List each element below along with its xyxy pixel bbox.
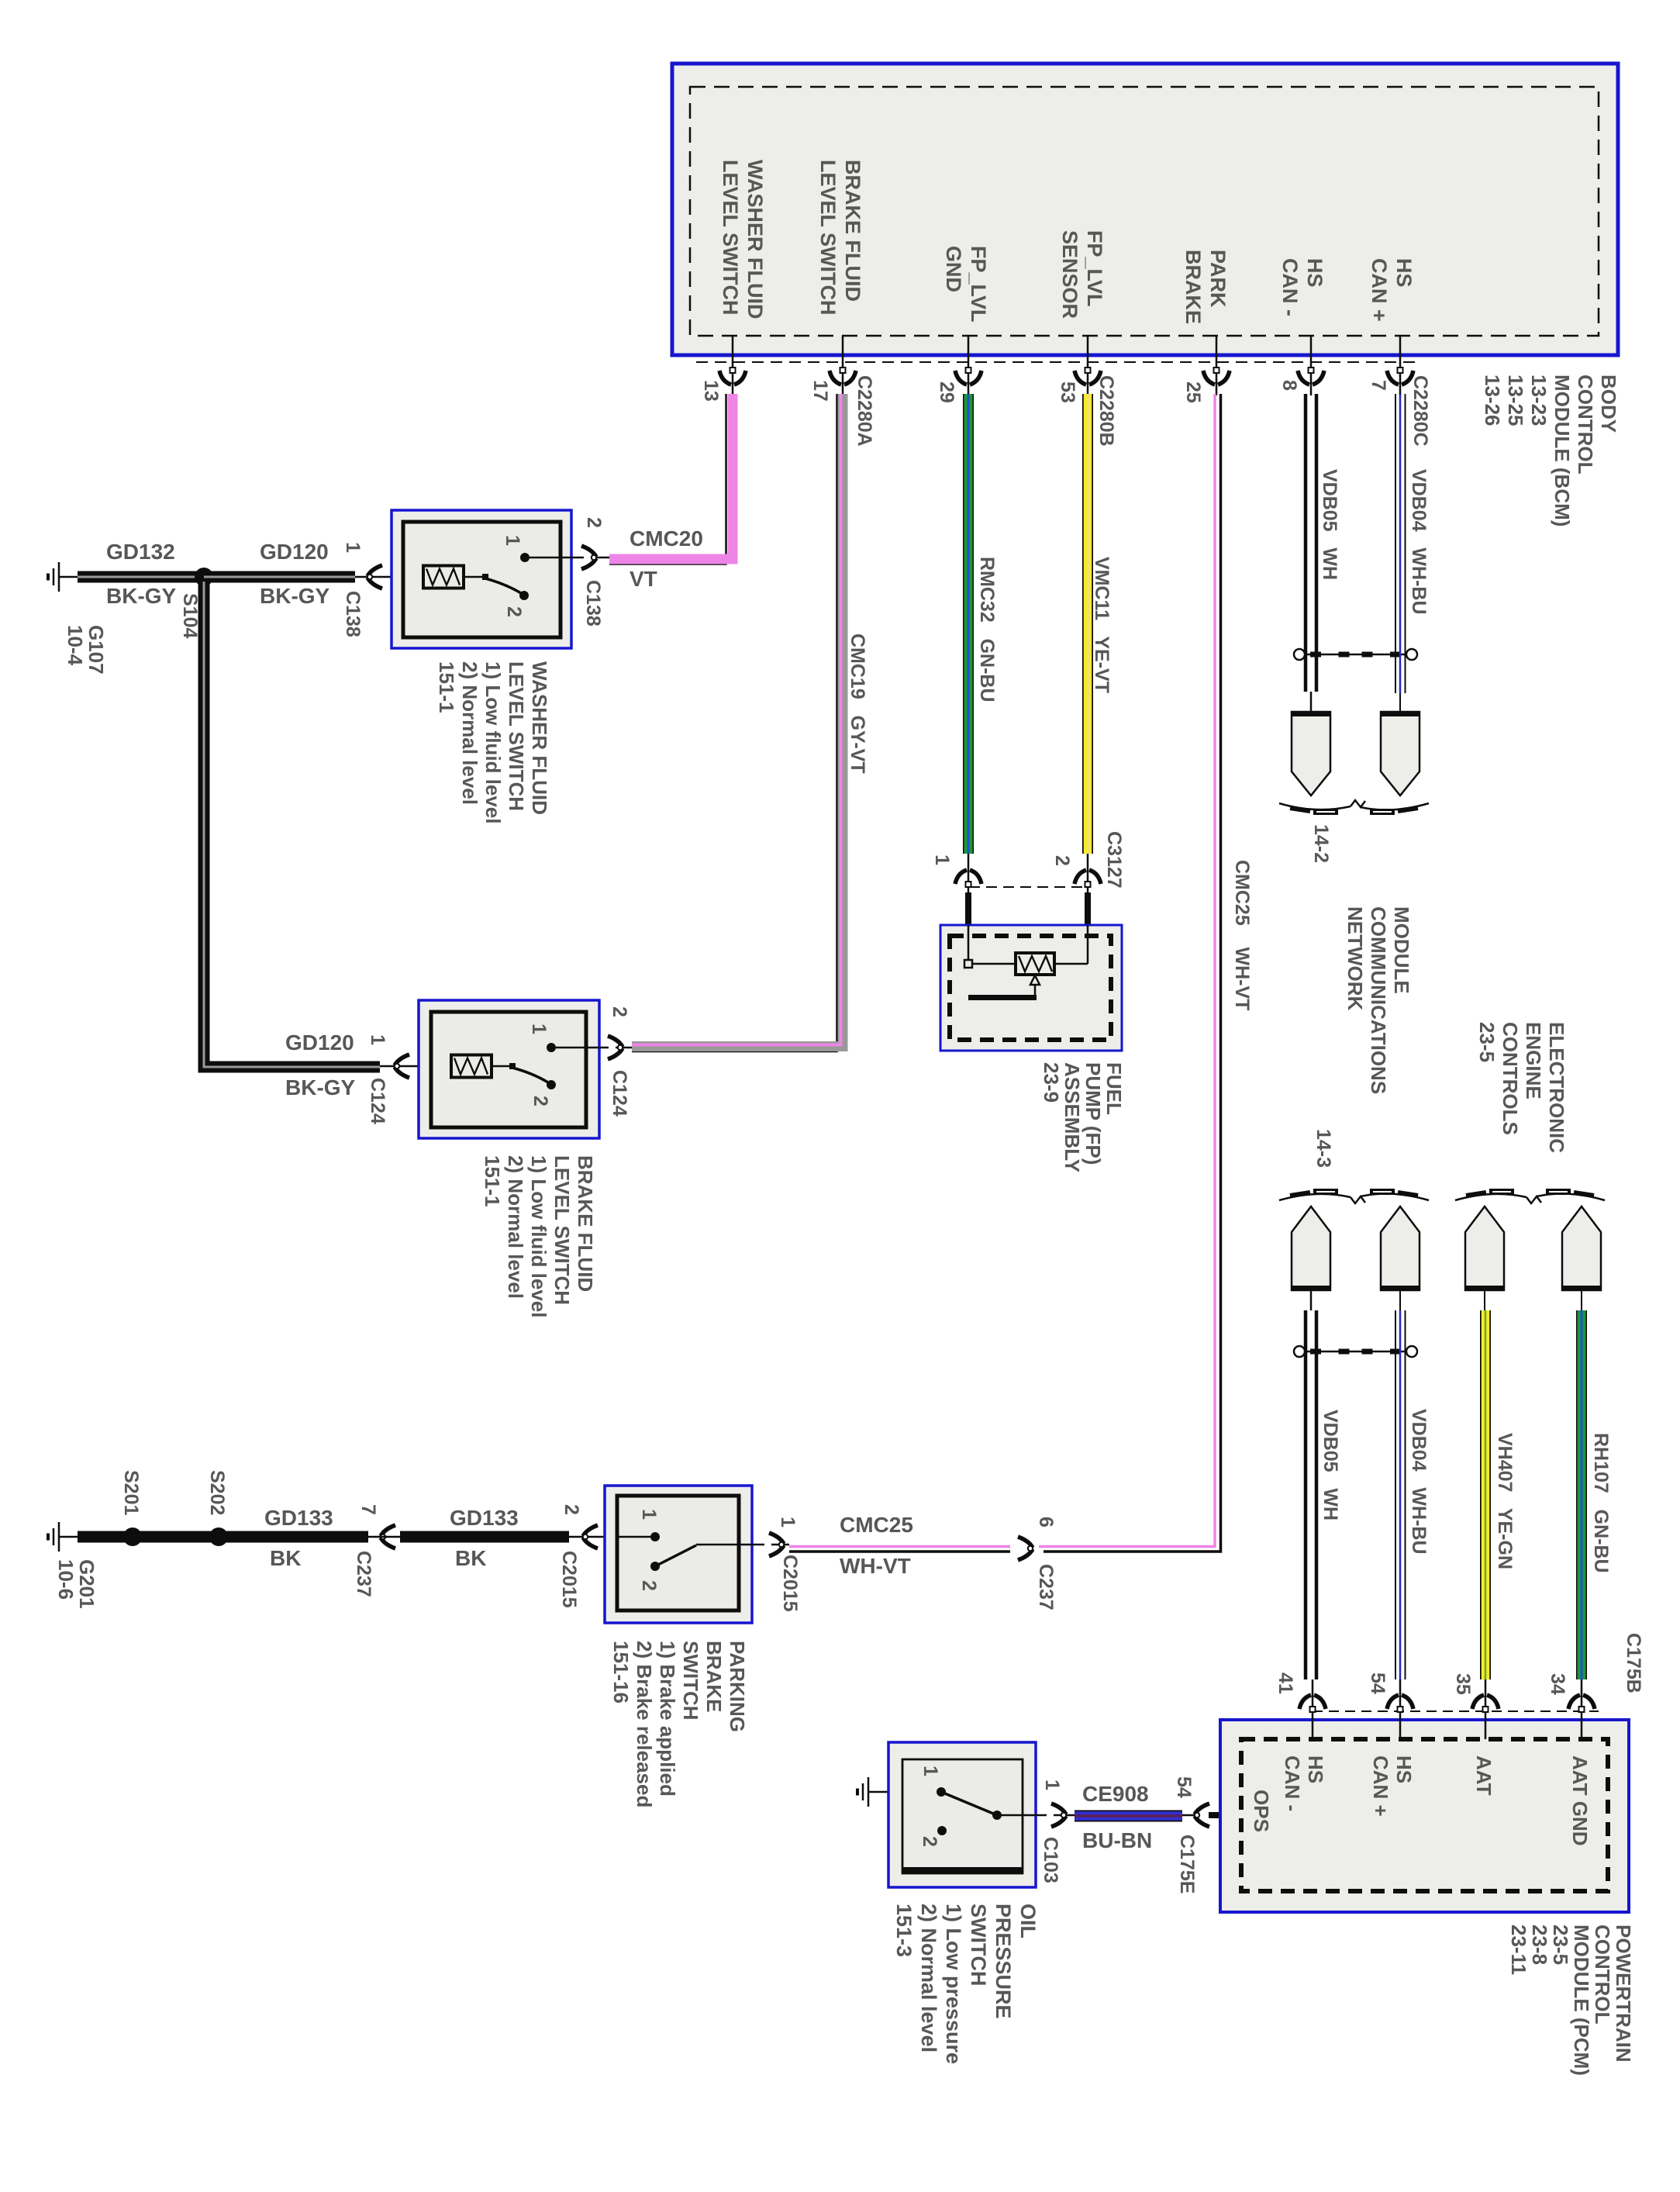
pin 35 <box>1453 1673 1473 1695</box>
module box PCM (Powertrain Control Module) <box>1220 1720 1629 1912</box>
connector name C124 (ground side) <box>367 1078 388 1124</box>
wire RH107 GN-BU outline <box>1576 1310 1587 1679</box>
label wire GD133 b <box>450 1507 519 1529</box>
harness bundle arcs 14-2 <box>1279 800 1429 812</box>
label wire VDB05 WH lower <box>1320 1410 1340 1521</box>
label ground G107 10-4 <box>64 625 106 675</box>
washer switch pin 1 contact <box>520 553 530 562</box>
label color BK b <box>455 1548 486 1569</box>
pin 54 C175E <box>1174 1776 1194 1798</box>
wire VDB04 single lead to connector <box>1399 693 1401 712</box>
pin 7 <box>1368 380 1389 391</box>
parking brake pin 1 <box>639 1509 659 1520</box>
connector arrow PCM pin 34 <box>1568 1695 1595 1712</box>
label wire GD133 a <box>264 1507 333 1529</box>
wire lead yellow to C3127 pin2 <box>1087 854 1089 898</box>
label color BK-GY (brake) <box>285 1077 355 1099</box>
pin 7 C237 <box>358 1504 378 1515</box>
connector plug VDB05 lower (up) <box>1292 1206 1330 1290</box>
connector name C175E <box>1177 1835 1197 1893</box>
connector name C237 (CMC25) <box>1036 1564 1056 1610</box>
label wire GD120 (brake) <box>285 1032 354 1054</box>
label splice S201 <box>121 1470 141 1515</box>
label BCM brake fluid input <box>816 160 865 316</box>
label color BK-GY <box>106 585 176 607</box>
pin 41 <box>1275 1672 1295 1694</box>
brake switch arm <box>512 1068 556 1089</box>
component box OIL PRESSURE SWITCH <box>888 1742 1036 1887</box>
label wire VDB05 WH upper <box>1320 469 1340 580</box>
harness bundle arcs 14-3 <box>1279 1192 1429 1203</box>
pin 1 C103 <box>1042 1779 1062 1790</box>
wire CE908 BU-BN (blue) <box>1075 1811 1182 1821</box>
wire CMC20 VT black outline <box>609 394 726 564</box>
wire CMC19 GY-VT (gray) <box>632 394 843 1047</box>
twisted pair symbol (PCM CAN) <box>1294 1346 1417 1357</box>
ground (oil pressure switch) <box>857 1777 888 1807</box>
connector plug RH107 (up) <box>1562 1206 1601 1290</box>
washer switch arm <box>485 578 529 600</box>
wire CMC19 GY-VT black outline <box>632 394 837 1051</box>
parking brake pin 2 <box>639 1580 659 1591</box>
washer switch pivot <box>482 574 488 580</box>
connector arrow PCM pin 35 <box>1472 1695 1499 1712</box>
connector arrow BCM pin 29 <box>955 368 981 385</box>
oil pressure switch output wire <box>997 1814 1075 1817</box>
wire inside parking brake switch to pin1 <box>617 1536 652 1538</box>
wire stub into fuel pump pin2 <box>1085 892 1091 925</box>
label washer switch block <box>435 661 551 823</box>
wire VDB05 lower lead <box>1310 1290 1313 1310</box>
component box FUEL PUMP ASSEMBLY <box>940 925 1122 1051</box>
washer switch pin1 wire out <box>530 557 609 559</box>
connector name C138 (ground side) <box>343 591 363 637</box>
connector arrow BCM pin 25 <box>1203 368 1230 385</box>
BCM inner dashed connector boundary <box>690 87 1599 336</box>
label wire VMC11 YE-VT <box>1092 557 1112 693</box>
wire RMC32 GN-BU outline <box>963 394 974 854</box>
connector name C237 (ground) <box>354 1551 374 1597</box>
label BCM FP_LVL SENSOR <box>1057 230 1107 319</box>
ground G107 <box>48 562 78 592</box>
wire GD120 BK-GY (to C138) <box>204 571 355 583</box>
parking brake switch arm <box>655 1545 696 1566</box>
connector C237 chevron on CMC25 <box>1018 1537 1033 1560</box>
connector C124 chevron (ground side) <box>395 1055 409 1078</box>
label BCM washer fluid input <box>718 160 768 319</box>
label wire CMC25 WH-VT <box>1232 860 1252 1010</box>
label splice S202 <box>207 1470 227 1515</box>
wire VH407 YE-GN (yellow) <box>1482 1310 1490 1679</box>
brake switch pin1 wire out <box>556 1047 632 1049</box>
connector arrow BCM pin 17 <box>830 368 856 385</box>
label oil pressure switch block <box>892 1904 1040 2064</box>
wire ground lead to OPS pin1 <box>888 1791 938 1793</box>
splice S202 <box>209 1527 228 1546</box>
label splice S104 <box>180 593 200 638</box>
connector name C2015 (ground) <box>559 1551 579 1608</box>
connector C2015 chevron (ground side) <box>583 1525 598 1548</box>
oil pressure switch pin2 contact <box>937 1826 947 1835</box>
fuel level sender resistor <box>1016 953 1054 975</box>
wire CMC25 WH-VT black line C2015-C237 <box>789 1550 1010 1553</box>
label wire GD120 <box>260 541 329 563</box>
wire stub into fuel pump pin1 <box>965 892 971 925</box>
connector arrow BCM pin 8 <box>1298 368 1324 385</box>
label wire CMC19 GY-VT <box>847 633 868 774</box>
fuel pump sender wire pin1 drop <box>968 925 970 960</box>
component box BRAKE FLUID LEVEL SWITCH <box>419 1000 599 1138</box>
label fuel pump block <box>1040 1062 1124 1172</box>
wire PCM pin 35 stem <box>1485 1679 1487 1739</box>
pin 17 <box>810 380 830 402</box>
wire BCM pin 8 stem <box>1310 336 1313 395</box>
connector name C2280C <box>1410 375 1430 447</box>
wire VDB04 WH-BU triple (to PCM pin 54) <box>1395 1310 1406 1679</box>
connector arrow BCM pin 7 <box>1387 368 1413 385</box>
connector plug VDB04 lower (up) <box>1381 1206 1420 1290</box>
oil pressure switch pin 2 <box>919 1836 940 1847</box>
pin 13 <box>701 380 721 402</box>
wire CMC20 VT (violet) <box>609 394 733 559</box>
connector arrow BCM pin 13 <box>719 368 746 385</box>
ground G201 <box>48 1522 78 1552</box>
component box WASHER FLUID LEVEL SWITCH <box>392 510 571 648</box>
pin 2 C138 output <box>584 517 604 528</box>
wire PCM pin 54 stem <box>1399 1679 1402 1739</box>
wire VDB05 single lead to connector <box>1310 692 1313 712</box>
component box PARKING BRAKE SWITCH <box>605 1486 752 1623</box>
label color BK a <box>270 1548 301 1569</box>
wire CMC25 WH-VT black line vertical <box>1044 394 1221 1552</box>
label ELECTRONIC ENGINE CONTROLS <box>1475 1022 1568 1153</box>
label BCM HS CAN - <box>1278 258 1327 316</box>
label wire CMC25 <box>840 1514 913 1536</box>
oil pressure switch arm <box>941 1792 1002 1820</box>
brake switch pin 1 <box>529 1024 549 1034</box>
brake switch pivot <box>509 1063 516 1069</box>
wire VMC11 YE-VT outline <box>1082 394 1093 854</box>
connector name C2015 (output) <box>780 1555 800 1612</box>
label takeout 14-2 <box>1311 824 1331 863</box>
parking brake switch output wire <box>696 1544 789 1546</box>
wire VH407 YE-GN outline <box>1480 1310 1491 1679</box>
washer switch pin 2 <box>504 606 524 617</box>
connector C2280 dashed line below BCM <box>696 361 1420 363</box>
wire CE908 BU-BN brown stripe <box>1075 1814 1182 1817</box>
wire GD133 BK (C237 to C2015) <box>400 1531 569 1543</box>
fuel pump wire resistor right <box>1054 963 1088 965</box>
connector arrow BCM pin 53 <box>1075 368 1101 385</box>
wire VH407 lead <box>1484 1290 1485 1310</box>
connector plug VH407 (up) <box>1465 1206 1504 1290</box>
label module name BCM <box>1481 375 1620 526</box>
wire GD133 BK (ground to C237) <box>78 1531 368 1543</box>
label BCM FP_LVL GND <box>941 246 991 323</box>
parking brake switch pin2 contact <box>650 1562 660 1571</box>
wire VH407 YE-GN green stripe <box>1485 1310 1487 1679</box>
label wire CMC20 <box>630 528 703 550</box>
connector name C175B <box>1623 1633 1644 1693</box>
connector name C124 (output side) <box>609 1070 630 1117</box>
label wire RMC32 GN-BU <box>977 557 997 702</box>
connector name C138 (output side) <box>583 580 603 627</box>
wire BCM pin 53 stem <box>1087 336 1089 395</box>
label module name PCM <box>1508 1924 1633 2076</box>
wire BCM pin 17 stem <box>842 336 844 395</box>
wire CE908 BU-BN outline <box>1075 1811 1182 1822</box>
wire BCM pin 25 stem <box>1216 336 1218 395</box>
washer switch wire resistor to pivot <box>464 576 485 578</box>
wire PCM pin 34 stem <box>1581 1679 1583 1739</box>
oil pressure switch pin 1 <box>920 1766 940 1776</box>
label PCM HS CAN + <box>1369 1755 1416 1817</box>
connector C124 chevron (output side) <box>608 1036 623 1059</box>
wire lead green to C3127 pin1 <box>968 854 970 898</box>
wire BCM pin 7 stem <box>1399 336 1402 395</box>
connector plug VDB04 (down) <box>1381 712 1420 796</box>
label color BK-GY (GD120) <box>260 585 329 607</box>
fuel pump sender terminal <box>964 960 972 968</box>
wire RMC32 GN-BU blue stripe <box>968 394 970 854</box>
twisted pair symbol (BCM CAN) <box>1294 649 1417 660</box>
washer switch pin 1 <box>502 535 523 546</box>
pin 53 <box>1057 381 1078 403</box>
connector plug VDB05 (down) <box>1292 712 1330 796</box>
wire RH107 GN-BU blue stripe <box>1581 1310 1583 1679</box>
label PCM AAT <box>1472 1755 1495 1796</box>
wire GD120 BK-GY splice drop to brake switch <box>204 582 380 1067</box>
label wire CE908 <box>1082 1783 1149 1805</box>
pin 29 <box>937 381 957 403</box>
connector name C3127 <box>1104 831 1124 889</box>
wire VDB05 WH pair (to PCM pin 41) <box>1306 1310 1316 1679</box>
label OPS (PCM input) <box>1251 1790 1271 1832</box>
label PCM HS CAN - <box>1281 1755 1327 1811</box>
brake switch wire resistor to pivot <box>492 1065 512 1068</box>
wire BCM pin 13 stem <box>732 336 734 395</box>
splice S104 <box>195 568 213 586</box>
pin 1 C124 <box>367 1034 388 1045</box>
connector C138 chevron (ground side) <box>367 565 382 589</box>
wire OPS stub into PCM <box>1209 1812 1244 1818</box>
brake switch pin 1 contact <box>547 1043 556 1052</box>
brake switch pin 2 <box>530 1096 550 1106</box>
label takeout 14-3 <box>1313 1129 1333 1168</box>
wire PCM pin 41 stem <box>1312 1679 1314 1739</box>
connector C237 chevron (ground side) <box>381 1525 395 1548</box>
label MODULE COMMUNICATIONS NETWORK <box>1344 906 1413 1094</box>
label wire GD132 <box>106 541 175 563</box>
connector arrow C3127 pin 1 <box>955 870 981 887</box>
fuel pump pin 2 <box>1052 855 1072 866</box>
splice S201 <box>123 1527 142 1546</box>
wire VMC11 YE-VT (yellow) <box>1084 394 1092 854</box>
wire lead CE908 to C175E <box>1182 1814 1194 1817</box>
connector arrow PCM pin 54 <box>1387 1695 1413 1712</box>
label BCM PARK BRAKE <box>1181 250 1230 324</box>
wire lead into brake switch <box>380 1065 451 1068</box>
resistor in brake switch <box>451 1055 492 1078</box>
pin 2 C2015 <box>561 1504 581 1515</box>
pin 54 PCM <box>1368 1672 1388 1694</box>
connector C103 chevron <box>1051 1804 1066 1827</box>
wire VMC11 YE-VT violet stripe <box>1087 394 1088 854</box>
connector C175E chevron <box>1195 1804 1209 1827</box>
wire BCM pin 29 stem <box>968 336 970 395</box>
pin 25 <box>1183 381 1203 403</box>
connector name C103 <box>1040 1837 1061 1883</box>
label color BU-BN <box>1082 1830 1152 1852</box>
label wire VDB04 WH-BU lower <box>1409 1409 1429 1555</box>
label wire RH107 GN-BU <box>1591 1433 1611 1573</box>
label brake switch block <box>481 1155 597 1317</box>
label parking brake block <box>609 1641 749 1807</box>
oil pressure switch pin1 contact <box>937 1787 946 1797</box>
label BCM HS CAN + <box>1367 258 1416 322</box>
connector C138 chevron (output side) <box>581 546 596 569</box>
pin 6 C237 <box>1036 1517 1056 1527</box>
PCM inner dashed boundary <box>1241 1739 1608 1891</box>
wire VDB04 WH-BU triple (from BCM pin 7) <box>1395 394 1406 693</box>
connector arrow C3127 pin 2 <box>1075 870 1101 887</box>
resistor in washer switch <box>423 566 464 589</box>
connector name C2280B <box>1096 375 1116 447</box>
pin 1 C138 <box>343 542 363 553</box>
connector C3127 dashed line <box>969 886 1087 888</box>
label color WH-VT <box>840 1555 911 1577</box>
wire RMC32 GN-BU (green) <box>964 394 973 854</box>
pin 34 <box>1547 1673 1568 1695</box>
parking brake switch pin1 contact <box>650 1532 660 1541</box>
label PCM AAT GND <box>1568 1755 1592 1846</box>
connector C175B dashed line above PCM <box>1313 1710 1599 1712</box>
fuel level sender wiper arrow <box>1030 975 1040 996</box>
label wire VDB04 WH-BU upper <box>1409 469 1429 615</box>
pin 1 C2015 output <box>778 1517 798 1527</box>
wire GD132 BK-GY <box>78 571 204 583</box>
wire CMC25 WH-VT violet line C2015-C237 <box>789 1545 1010 1548</box>
label wire VH407 YE-GN <box>1495 1433 1515 1569</box>
fuel level sender wiper bar <box>968 995 1037 1000</box>
wire RH107 GN-BU (green) <box>1578 1310 1586 1679</box>
fuel pump inner dashed box <box>950 936 1111 1040</box>
connector C2015 chevron (output side) <box>769 1533 784 1556</box>
wire lead into parking brake switch <box>368 1536 617 1538</box>
connector name C2280A <box>854 375 874 447</box>
wire RH107 lead <box>1581 1290 1582 1310</box>
fuel pump wire pin2 drop <box>1087 925 1089 964</box>
wire lead into washer switch <box>355 576 423 578</box>
label color VT <box>630 568 657 590</box>
wire VDB05 WH pair (from BCM pin 8) <box>1306 394 1316 692</box>
connector arrow PCM pin 41 <box>1299 1695 1326 1712</box>
wire CMC25 WH-VT violet line vertical+upper corner <box>1039 394 1215 1547</box>
fuel pump pin 1 <box>932 854 952 865</box>
harness bundle arcs EEC <box>1455 1192 1605 1203</box>
label ground G201 10-6 <box>55 1559 97 1609</box>
module box BCM (Body Control Module) <box>672 64 1618 355</box>
pin 2 C124 output <box>609 1006 630 1017</box>
wire CMC19 GY-VT violet stripe <box>632 394 841 1045</box>
fuel pump sender wire to resistor <box>972 963 1016 965</box>
pin 8 <box>1279 380 1299 391</box>
wire VDB04 lower lead <box>1399 1290 1401 1310</box>
